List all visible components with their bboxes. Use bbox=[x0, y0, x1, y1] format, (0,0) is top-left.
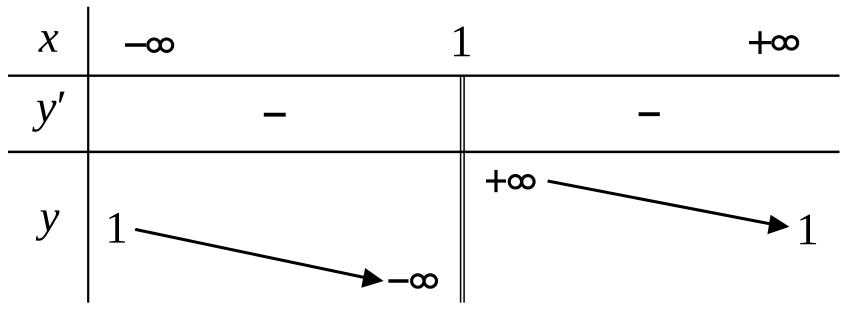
wire: double vertical line at x=1 (right stroke) bbox=[463, 76, 465, 303]
node -inf bottom: infinity left circle bbox=[412, 275, 424, 287]
node -inf top: minus sign bbox=[125, 43, 146, 47]
wire: double vertical line at x=1 (left stroke) bbox=[460, 76, 462, 303]
wire: second horizontal rule bbox=[8, 151, 840, 154]
node arrowhead right bbox=[767, 215, 789, 235]
wire: left decreasing arrow shaft bbox=[135, 229, 367, 278]
node arrowhead left bbox=[361, 268, 383, 288]
node +inf top: infinity right circle bbox=[785, 37, 797, 49]
node -inf bottom: infinity right circle bbox=[424, 275, 436, 287]
node +inf right: infinity left circle bbox=[509, 176, 521, 188]
wire: top horizontal rule bbox=[8, 74, 840, 76]
node -inf top: infinity right circle bbox=[160, 39, 172, 51]
node minus right: sign of y' on right interval bbox=[639, 112, 660, 116]
node -inf top: infinity left circle bbox=[148, 39, 160, 51]
node +inf top: plus vertical stroke bbox=[758, 31, 761, 54]
wire: vertical header separator line bbox=[87, 7, 89, 303]
node -inf bottom: minus sign bbox=[388, 279, 408, 283]
node +inf top: infinity left circle bbox=[773, 37, 785, 49]
node 1 top: critical value label bbox=[454, 26, 470, 56]
node 1 right: limit value of y bbox=[800, 215, 816, 245]
node minus left: sign of y' on left interval bbox=[264, 113, 286, 117]
node +inf right: infinity right circle bbox=[522, 176, 534, 188]
wire: right decreasing arrow shaft bbox=[548, 181, 771, 224]
node +inf top: plus horizontal stroke bbox=[749, 41, 771, 44]
node 1 left: starting value of y bbox=[109, 213, 125, 243]
node x: row header variable x bbox=[38, 31, 58, 52]
node +inf right: plus vertical stroke bbox=[494, 170, 497, 192]
node y': derivative row header bbox=[32, 101, 56, 132]
node y: function row header bbox=[36, 210, 60, 240]
node +inf right: plus horizontal stroke bbox=[486, 179, 506, 182]
